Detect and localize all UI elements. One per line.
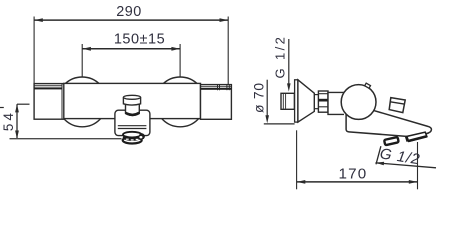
svg-text:150±15: 150±15 <box>114 32 165 48</box>
dimension 170 arrow right <box>409 180 418 184</box>
diverter knob upper rim <box>123 97 140 105</box>
spout mouth dark left cap <box>405 136 409 142</box>
left union collar line <box>34 85 62 87</box>
block inner line 1 <box>118 125 147 127</box>
dimension 54 vertical line <box>16 104 18 139</box>
dimension 150±15 arrow left <box>82 47 91 51</box>
nut line lower <box>318 106 328 108</box>
spout mouth <box>407 132 427 141</box>
ø 70 reference line at flange bottom <box>264 123 295 125</box>
G 1/2 spout leader underline <box>376 163 437 168</box>
body sphere <box>341 85 376 120</box>
svg-text:54: 54 <box>1 110 16 131</box>
G 1/2 leader arrow <box>287 83 291 91</box>
svg-text:ø 70: ø 70 <box>252 82 267 113</box>
left valve cap circle <box>57 77 107 127</box>
block inner line 2 <box>118 128 147 130</box>
dimension 290 extension line left <box>33 17 35 84</box>
shower outlet <box>389 98 405 113</box>
valve neck <box>328 92 344 114</box>
label G 1/2 (spout) extension bar <box>376 146 381 164</box>
spout <box>346 110 431 136</box>
spout mouth dark bottom edge <box>408 136 427 141</box>
centre spout block <box>115 110 150 135</box>
right wall union <box>201 85 232 120</box>
svg-text:290: 290 <box>116 4 142 20</box>
diverter knob top ellipse <box>123 95 140 99</box>
shower outlet seam <box>390 102 405 104</box>
diverter knob lower cylinder <box>126 100 140 116</box>
dimension 290 arrow right <box>220 18 229 22</box>
safety button notch <box>365 83 371 88</box>
left union inner vertical line <box>61 84 63 120</box>
dimension 290 arrow left <box>34 18 43 22</box>
dimension 54 arrow down <box>15 131 19 139</box>
svg-text:G 1/2: G 1/2 <box>272 35 287 79</box>
aerator band slots <box>126 139 129 140</box>
dimension 54 top tick <box>17 103 30 105</box>
right union collar band <box>201 88 232 90</box>
wall nipple <box>281 93 294 109</box>
connection nut <box>318 91 328 112</box>
aerator bottom rim <box>123 137 142 143</box>
dimension 150±15 arrow right <box>171 47 180 51</box>
left union collar band <box>34 87 62 89</box>
dimension 150±15 extension line left <box>81 44 83 77</box>
dimension 54 arrow up <box>15 104 19 112</box>
svg-text:170: 170 <box>339 166 368 183</box>
right valve cap circle <box>155 77 205 127</box>
nipple thread lines <box>282 94 284 109</box>
G 1/2 leader line <box>288 39 290 87</box>
dimension 170 extension line right <box>417 142 419 189</box>
diverter knob dark base band <box>126 113 139 115</box>
dimension 54 bottom extension line to aerator <box>10 138 122 140</box>
dimension 290 line <box>34 19 228 21</box>
dimension 170 line <box>297 181 418 183</box>
connector to nut <box>314 94 318 96</box>
diverter tab <box>384 137 399 145</box>
aerator dark band <box>123 134 142 141</box>
right union collar line <box>201 86 232 88</box>
dimension 170 extension line left <box>296 130 298 189</box>
dimension 170 arrow left <box>297 180 306 184</box>
dimension 150±15 extension line right <box>179 44 181 77</box>
dimension 290 extension line right <box>227 17 229 85</box>
centre button <box>139 133 145 139</box>
body bar <box>64 83 201 118</box>
left edge tick <box>0 107 4 109</box>
svg-text:G 1/2: G 1/2 <box>379 145 422 168</box>
G 1/2 spout leader arrow <box>376 162 385 166</box>
nut line upper <box>318 93 328 95</box>
left wall union <box>34 84 64 120</box>
nut dark band <box>318 99 328 102</box>
right union facet marks <box>217 85 219 91</box>
escutcheon rim <box>295 80 298 122</box>
aerator top face <box>123 132 141 138</box>
ø 70 leader arrow <box>265 115 269 123</box>
escutcheon cone <box>298 80 314 122</box>
ø 70 leader line <box>266 80 268 119</box>
dimension 150±15 line <box>82 48 180 50</box>
